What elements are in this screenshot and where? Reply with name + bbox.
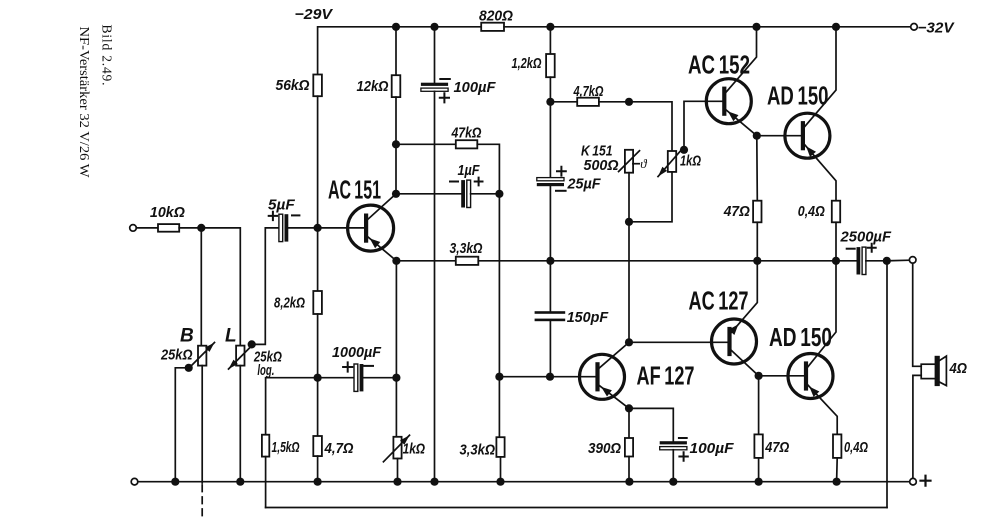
wire 1k trimmer to ground: [397, 459, 399, 482]
node L ground: [236, 478, 244, 486]
node L wiper: [248, 340, 256, 348]
transistor AD150 lower emitter arrow: [809, 387, 819, 397]
node mid line x757 (47ohm): [753, 257, 761, 265]
resistor 4.7ohm: [313, 436, 322, 456]
svg-text:Bild 2.49.: Bild 2.49.: [100, 25, 115, 86]
node top rail x836 (AD150 collector): [832, 23, 840, 31]
svg-text:ϑ: ϑ: [640, 156, 647, 171]
resistor 0.4ohm upper: [832, 201, 840, 223]
wire rail to 100uF: [434, 27, 436, 83]
transistor AD150 lower emitter: [807, 384, 837, 434]
speaker horn: [940, 356, 947, 386]
transistor AF127 emitter: [598, 385, 629, 409]
trimmer 1kohm arrowhead: [400, 435, 410, 445]
terminal plus right: [910, 478, 917, 485]
wire mid node to 150pF: [549, 261, 551, 311]
transistor AD150 upper circle: [785, 113, 830, 158]
capacitor 100uF top: [421, 83, 448, 86]
wire 8.2k to 1000uF node: [317, 314, 319, 378]
wire emitter to 3.3k: [396, 260, 455, 262]
wire 25uF top: [549, 102, 551, 178]
potentiometer B arrowhead: [205, 343, 214, 352]
wire K151 bottom: [628, 173, 630, 222]
svg-text:47kΩ: 47kΩ: [451, 125, 482, 142]
svg-text:500Ω: 500Ω: [584, 157, 619, 174]
resistor 1.5kohm: [262, 435, 269, 457]
svg-text:1,5kΩ: 1,5kΩ: [272, 439, 300, 456]
potentiometer L arrow: [229, 345, 253, 369]
wire 2500uF to output node: [866, 260, 887, 262]
minus sign 25uF: [556, 190, 566, 192]
terminal -32V: [911, 24, 918, 31]
node 47ohm ground: [755, 478, 763, 486]
wire B wiper to ground: [175, 368, 188, 482]
resistor 820ohm: [481, 23, 504, 31]
svg-text:AD 150: AD 150: [769, 322, 832, 352]
transistor AC151 circle: [348, 205, 394, 251]
transistor AD150 upper base bar: [801, 123, 805, 148]
svg-text:4,7kΩ: 4,7kΩ: [573, 83, 604, 100]
transistor AF127 collector: [598, 342, 629, 369]
svg-text:100µF: 100µF: [690, 440, 735, 457]
wire rail to 12k: [395, 27, 397, 75]
wire 1k pot bottom to K151 node: [629, 172, 672, 222]
node AC152 emitter: [753, 132, 761, 140]
capacitor 5uF: [279, 214, 283, 241]
wire AC127 collector to 47ohm: [758, 376, 760, 435]
node AF127 base line left: [495, 373, 503, 381]
capacitor 150pF: [535, 311, 566, 314]
wire 3.3k to 25uF node: [478, 260, 550, 262]
plus sign 5uF: [269, 212, 277, 220]
wire AC127 collector to AD150 base: [759, 375, 806, 377]
svg-text:B: B: [180, 326, 194, 347]
wire mid line x757 to x836: [757, 260, 836, 262]
plus sign 1uF: [475, 178, 483, 186]
transistor AC152 circle: [706, 79, 751, 124]
node AF127 collector: [625, 338, 633, 346]
wire 1k wiper to AC152 base: [684, 101, 724, 150]
plus sign 100uF bottom: [679, 452, 687, 460]
wire 12k to 47k node: [395, 97, 397, 144]
svg-text:3,3kΩ: 3,3kΩ: [460, 441, 496, 458]
wire 1000uF node to cap: [318, 377, 354, 379]
node 1k pot wiper: [680, 146, 688, 154]
wire 47k to corner down: [477, 144, 499, 194]
transistor AF127 base bar: [595, 364, 599, 389]
wire 1.2k to 4.7k node: [549, 77, 551, 102]
wire mid line x550 to x757: [550, 260, 757, 262]
wire mid line to 2500uF: [836, 260, 857, 262]
transistor AF127 circle: [580, 354, 625, 399]
thermistor K151 body: [625, 150, 633, 173]
speaker bar: [935, 356, 940, 386]
wire speaker to plus terminal: [913, 375, 921, 478]
svg-text:820Ω: 820Ω: [479, 8, 513, 25]
wire top rail right segment: [504, 26, 911, 28]
svg-text:AC 151: AC 151: [328, 175, 381, 205]
node 4.7k line left: [546, 98, 554, 106]
svg-text:AC 152: AC 152: [688, 49, 750, 79]
wire AC152 emitter to AD150 base: [757, 135, 803, 137]
svg-text:10kΩ: 10kΩ: [150, 204, 185, 221]
resistor 8.2kohm: [313, 291, 322, 314]
svg-text:4Ω: 4Ω: [949, 360, 968, 377]
node output: [883, 257, 891, 265]
node ground x317: [314, 478, 322, 486]
resistor 47kohm: [456, 140, 478, 148]
minus sign 100uF bottom: [679, 437, 687, 439]
terminal input: [130, 225, 137, 232]
svg-text:12kΩ: 12kΩ: [357, 78, 389, 95]
wire B pot bottom: [201, 366, 203, 483]
trimmer 1kohm arrow: [383, 435, 409, 462]
transistor AC152 base bar: [722, 89, 726, 114]
transistor AC151 collector: [367, 194, 396, 220]
svg-text:25kΩ: 25kΩ: [160, 346, 193, 363]
node 1000uF right: [392, 374, 400, 382]
node top rail x550: [546, 23, 554, 31]
transistor AC127 emitter up: [730, 261, 757, 334]
svg-text:390Ω: 390Ω: [588, 440, 621, 457]
wire B pot top: [200, 228, 202, 346]
minus sign 5uF: [292, 214, 299, 216]
wire AF127 emitter to 390ohm: [628, 408, 630, 438]
wire 3.3k bottom to ground: [500, 457, 502, 482]
wire input to 10k: [136, 227, 158, 229]
svg-text:2500µF: 2500µF: [840, 228, 892, 245]
wire 1000uF to emitter branch node: [363, 377, 396, 379]
wire 4.7k to K151 node: [599, 101, 629, 103]
node K151 top: [625, 98, 633, 106]
capacitor 1000uF: [354, 364, 358, 391]
node 0.4ohm ground: [833, 478, 841, 486]
thermistor K151 diagonal: [619, 151, 640, 172]
node top rail x434: [430, 23, 438, 31]
transistor AC152 collector: [725, 27, 756, 93]
potentiometer 1kohm arrowhead: [658, 167, 667, 177]
node 390ohm ground: [625, 478, 633, 486]
node AF127 emitter: [625, 404, 633, 412]
transistor AC127 emitter arrow: [728, 324, 738, 335]
plus sign 25uF: [557, 167, 566, 176]
svg-text:NF-Verstärker 32 V/26 W: NF-Verstärker 32 V/26 W: [77, 27, 92, 178]
wire AF127 base node to 3.3k: [498, 377, 500, 438]
node AC151 emitter: [392, 257, 400, 265]
wire bottom rail: [138, 481, 910, 483]
wire output node to terminal: [887, 259, 910, 262]
capacitor 100uF bottom: [660, 441, 687, 444]
plus sign 100uF top: [440, 93, 449, 102]
svg-text:56kΩ: 56kΩ: [276, 77, 310, 94]
wire output terminal to speaker: [913, 263, 922, 366]
wire AC151 base: [318, 227, 367, 229]
node AC151 base: [314, 224, 322, 232]
wire 150pF to base line: [549, 321, 551, 377]
wire 390ohm to ground: [628, 457, 630, 482]
svg-text:AC 127: AC 127: [689, 286, 749, 316]
svg-text:150pF: 150pF: [567, 309, 609, 326]
transistor AD150 upper emitter arrow: [806, 146, 816, 157]
terminal output: [909, 257, 916, 264]
wire collector node to 47k: [396, 143, 456, 145]
node B wiper ground: [171, 478, 179, 486]
svg-text:1µF: 1µF: [458, 162, 481, 179]
potentiometer 1kohm body: [668, 151, 676, 172]
wire L pot bottom to ground: [239, 366, 241, 482]
capacitor 25uF: [537, 178, 564, 181]
svg-text:4,7Ω: 4,7Ω: [324, 440, 354, 457]
wire AF127 collector to AC127 base: [629, 341, 730, 343]
transistor AC127 circle: [712, 319, 757, 364]
wire L wiper up to 5uF: [252, 228, 279, 345]
wire node to 4.7k: [550, 101, 577, 103]
svg-text:−32V: −32V: [918, 20, 956, 37]
node top rail x396: [392, 23, 400, 31]
svg-text:8,2kΩ: 8,2kΩ: [274, 295, 305, 312]
wire 47ohm lower to ground: [758, 458, 760, 482]
wire 25uF bottom to mid line: [549, 186, 551, 261]
svg-text:1000µF: 1000µF: [332, 344, 382, 361]
svg-text:L: L: [225, 325, 237, 346]
terminal ground left: [131, 478, 138, 485]
resistor 10kohm: [158, 224, 179, 232]
node 47k line left: [392, 140, 400, 148]
transistor AC152 emitter: [725, 109, 757, 136]
wire 5uF to base node: [288, 227, 317, 229]
node AC127 collector: [755, 372, 763, 380]
potentiometer B body: [198, 346, 206, 366]
resistor 1.2kohm: [546, 54, 555, 77]
node AC151 collector: [392, 190, 400, 198]
node top rail x756 (AC152 collector): [752, 23, 760, 31]
wire 10k to input node: [179, 227, 201, 229]
wire 1.5k to feedback line: [265, 457, 267, 508]
resistor 56kohm: [313, 75, 322, 97]
wire 4.7ohm to ground rail: [317, 456, 319, 482]
minus sign 2500uF: [847, 248, 855, 250]
resistor 390ohm: [625, 438, 633, 457]
svg-text:0,4Ω: 0,4Ω: [844, 439, 868, 456]
speaker box: [921, 364, 937, 378]
resistor 4.7kohm: [577, 98, 599, 106]
wire input node to L pot top: [201, 228, 240, 346]
transistor AD150 lower base bar: [804, 364, 808, 389]
svg-text:1kΩ: 1kΩ: [680, 153, 701, 170]
wire emitter to 100uF bottom: [629, 408, 673, 441]
transistor AC127 collector down: [730, 350, 758, 376]
transistor AD150 lower collector: [807, 261, 836, 368]
transistor AC127 base bar: [727, 329, 731, 354]
wire 1uF to node: [471, 193, 500, 195]
wire 0.4ohm lower to ground: [836, 458, 839, 482]
thermistor K151 theta dash: [633, 163, 639, 165]
minus sign 100uF top: [440, 78, 450, 80]
dashed line below B pot: [201, 485, 203, 516]
capacitor 2500uF: [857, 247, 861, 274]
wire K151 node to AF127 collector node: [628, 222, 630, 342]
minus sign 1uF: [450, 181, 458, 183]
svg-text:AD 150: AD 150: [767, 80, 829, 110]
resistor 0.4ohm lower: [833, 434, 841, 458]
svg-text:log.: log.: [257, 362, 274, 379]
resistor 47ohm upper: [753, 201, 761, 223]
plus sign output terminal: [921, 476, 931, 486]
node input divider: [197, 224, 205, 232]
svg-text:47Ω: 47Ω: [723, 203, 750, 220]
capacitor 1uF: [461, 180, 465, 207]
node mid line x836 (0.4ohm): [832, 257, 840, 265]
wire feedback line up to output: [886, 261, 888, 508]
wire AF127 base line: [499, 376, 550, 378]
wire 1uF node down across mid line: [498, 194, 500, 377]
wire 1000uF node to 4.7ohm: [317, 378, 319, 436]
potentiometer 1kohm arrow: [658, 149, 682, 176]
svg-text:0,4Ω: 0,4Ω: [798, 203, 825, 220]
node ground x434: [430, 478, 438, 486]
potentiometer L body: [236, 346, 244, 366]
node K151 bottom: [625, 218, 633, 226]
wire feedback bottom line: [266, 507, 887, 509]
transistor AC151 base bar: [364, 216, 368, 241]
transistor AC152 emitter arrow: [728, 111, 739, 121]
wire 100uF bottom to ground: [672, 450, 674, 482]
potentiometer L arrowhead: [229, 360, 238, 369]
node 100uF ground: [669, 478, 677, 486]
plus sign 2500uF: [868, 244, 876, 252]
wire top rail left segment: [318, 27, 482, 75]
wire emitter branch to 1k trimmer: [395, 378, 397, 437]
wire AC152 emitter to 47ohm upper: [756, 136, 759, 201]
wire 1000uF node corner to 1.5k: [266, 378, 318, 435]
node 150pF bottom: [546, 373, 554, 381]
svg-text:100µF: 100µF: [454, 79, 497, 96]
minus sign 1000uF: [364, 365, 373, 367]
transistor AD150 upper collector: [804, 27, 836, 128]
node mid line x550: [546, 257, 554, 265]
svg-text:AF 127: AF 127: [637, 361, 695, 391]
node ground x397: [393, 478, 401, 486]
svg-text:−29V: −29V: [295, 6, 335, 23]
transistor AD150 lower circle: [788, 354, 833, 399]
wire 150pF node to AF127 base: [550, 376, 598, 378]
resistor 3.3kohm mid: [456, 257, 479, 265]
svg-text:47Ω: 47Ω: [764, 439, 789, 456]
node 3.3k ground: [496, 478, 504, 486]
transistor AD150 upper emitter: [804, 144, 836, 201]
wire 100uF to ground rail: [434, 91, 436, 481]
transistor AF127 emitter arrow: [601, 387, 612, 397]
wire base node to 8.2k: [317, 228, 319, 291]
svg-text:1,2kΩ: 1,2kΩ: [512, 55, 542, 72]
wire 47ohm upper to mid line: [756, 222, 758, 260]
wire AC151 emitter down: [395, 261, 397, 378]
wire 0.4ohm upper to mid line: [835, 222, 837, 260]
transistor AC151 emitter arrow: [370, 238, 381, 248]
svg-text:1kΩ: 1kΩ: [403, 441, 426, 458]
transistor AC151 emitter: [367, 236, 396, 261]
trimmer 1kohm body: [393, 437, 401, 459]
potentiometer B arrow: [191, 343, 215, 367]
resistor 47ohm lower: [754, 434, 762, 458]
resistor 12kohm: [392, 75, 401, 97]
node 1000uF left: [314, 374, 322, 382]
wire 47k node to collector node: [395, 144, 397, 194]
wire K151 node to 1k pot top: [629, 102, 672, 151]
wire 56k to base node: [317, 96, 319, 228]
wire rail to 1.2k: [549, 27, 551, 54]
node 1uF right: [495, 190, 503, 198]
node B wiper: [185, 364, 193, 372]
svg-text:25µF: 25µF: [567, 176, 602, 193]
svg-text:3,3kΩ: 3,3kΩ: [450, 240, 483, 257]
plus sign 1000uF: [343, 362, 352, 371]
resistor 3.3kohm bottom: [496, 437, 504, 457]
wire collector node to 1uF: [396, 193, 461, 195]
